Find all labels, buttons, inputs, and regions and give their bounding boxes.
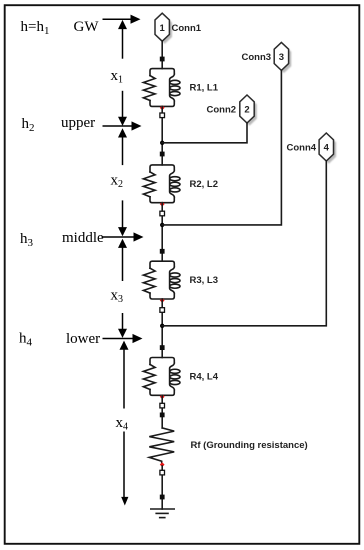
- node: red anchor dot below R4,L4: [160, 394, 165, 399]
- svg-text:R3, L3: R3, L3: [190, 275, 219, 286]
- port Conn1 (pin 1): [155, 13, 172, 44]
- pin: input port square R1,L1 input: [160, 57, 165, 62]
- svg-text:Conn1: Conn1: [172, 23, 202, 34]
- wire: R1,L1 output down to R2,L2 input: [161, 106, 163, 164]
- pin: output port square R2,L2 output: [160, 211, 165, 216]
- svg-text:middle: middle: [62, 230, 104, 246]
- node: red anchor dot below Rf: [160, 462, 165, 467]
- inductor L2: [170, 170, 180, 197]
- resistor Rf (grounding resistance): [149, 428, 174, 463]
- resistor R3: [143, 268, 155, 293]
- wire: R2,L2 output down to R3,L3 input: [161, 203, 163, 262]
- svg-text:R1, L1: R1, L1: [190, 83, 219, 94]
- port Conn2 (pin 2): [240, 95, 257, 126]
- ground: [151, 509, 174, 518]
- inductor L3: [170, 267, 180, 294]
- pin: input port square R3,L3 input: [160, 249, 165, 254]
- wire: R3,L3 output down to R4,L4 input: [161, 299, 163, 358]
- node: red anchor dot below R1,L1: [160, 105, 165, 110]
- dimension arrow: x1 span (GW to upper): [118, 20, 127, 126]
- dimension arrow: x3 span (middle to lower): [118, 239, 127, 338]
- node: red anchor dot below R2,L2: [160, 202, 165, 207]
- pin: input port square R4,L4 input: [160, 345, 165, 350]
- wire: Rf output to ground: [161, 466, 163, 509]
- junction node to Conn3: [160, 223, 164, 227]
- port Conn4 (pin 4): [319, 133, 336, 164]
- svg-text:lower: lower: [66, 331, 100, 347]
- pin: input port square Rf input: [160, 413, 165, 418]
- block outline R3,L3: [150, 261, 174, 299]
- block outline R2,L2: [150, 165, 174, 203]
- svg-text:R4, L4: R4, L4: [190, 372, 219, 383]
- svg-text:Conn3: Conn3: [242, 52, 272, 63]
- dimension arrow: GW level line: [103, 15, 141, 24]
- pin: output port square R4,L4 output: [160, 403, 165, 408]
- resistor R1: [143, 76, 155, 101]
- junction node to Conn4: [160, 324, 164, 328]
- dimension arrow: upper level line: [103, 121, 142, 130]
- pin: input port square ground input: [160, 495, 165, 500]
- dimension arrow: lower level line: [103, 334, 143, 343]
- wire: R4,L4 output to Rf input: [161, 395, 163, 428]
- block outline R1,L1: [150, 69, 174, 107]
- inductor L4: [170, 363, 180, 390]
- node: red anchor dot below R3,L3: [160, 298, 165, 303]
- svg-text:3: 3: [279, 52, 284, 63]
- svg-text:GW: GW: [74, 19, 100, 35]
- pin: output port square Rf output: [160, 470, 165, 475]
- pin: input port square R2,L2 input: [160, 152, 165, 157]
- svg-text:1: 1: [160, 23, 166, 34]
- wire: junction to Conn4: [162, 161, 326, 326]
- resistor R2: [143, 172, 155, 197]
- svg-text:Conn2: Conn2: [207, 105, 237, 116]
- block outline R4,L4: [150, 358, 174, 396]
- pin: output port square R1,L1 output: [160, 113, 165, 118]
- svg-text:upper: upper: [61, 115, 95, 131]
- wire: junction to Conn3: [162, 70, 281, 225]
- resistor R4: [143, 365, 155, 390]
- wire: junction to Conn2: [162, 123, 247, 143]
- svg-text:Rf (Grounding resistance): Rf (Grounding resistance): [191, 440, 308, 451]
- inductor L1: [170, 74, 180, 101]
- svg-text:Conn4: Conn4: [287, 143, 317, 154]
- svg-text:2: 2: [244, 105, 249, 116]
- junction node to Conn2: [160, 141, 164, 145]
- port Conn3 (pin 3): [274, 42, 291, 73]
- dimension arrow: middle level line: [102, 232, 144, 241]
- pin: output port square R3,L3 output: [160, 308, 165, 313]
- svg-text:4: 4: [324, 143, 330, 154]
- wire: Conn1 to R1,L1 input: [161, 41, 163, 68]
- dimension arrow: x2 span (upper to middle): [118, 128, 127, 236]
- svg-text:R2, L2: R2, L2: [190, 179, 219, 190]
- dimension arrow: x4 span (lower to ground): [120, 341, 129, 506]
